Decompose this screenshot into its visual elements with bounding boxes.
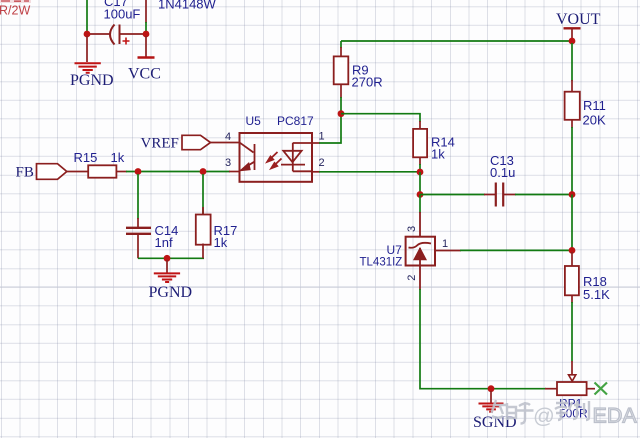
resistor R9 270R (334, 41, 383, 114)
svg-text:1k: 1k (214, 235, 228, 250)
svg-text:100uF: 100uF (104, 7, 141, 22)
svg-text:VOUT: VOUT (556, 11, 601, 28)
ground SGND (473, 391, 517, 431)
svg-text:PGND: PGND (149, 284, 193, 301)
diode label 1N4148W (158, 0, 217, 11)
regulator U7 TL431IZ (360, 195, 462, 291)
resistor R11 20K (565, 43, 606, 195)
ground PGND (top-left) (70, 36, 114, 89)
pin number 2 (319, 157, 325, 169)
capacitor C13 0.1u (420, 153, 572, 207)
junction node FB/R15 (135, 168, 142, 175)
svg-text:PGND: PGND (70, 72, 114, 89)
major grid line (0, 286, 640, 288)
svg-text:3: 3 (406, 226, 418, 232)
pin number 3 (U7) (406, 226, 418, 232)
wire FB to R15 (67, 171, 89, 173)
junction node SGND rail (488, 385, 495, 392)
junction node C17 right (143, 31, 150, 38)
junction node R9 bottom (338, 110, 345, 117)
resistor R14 1k (413, 121, 455, 172)
junction node C13 right (569, 191, 576, 198)
resistor R17 1k (196, 174, 238, 258)
svg-text:1nf: 1nf (155, 235, 173, 250)
svg-text:R15: R15 (74, 150, 98, 165)
svg-text:20K: 20K (583, 113, 606, 128)
resistor R18 5.1K (565, 252, 610, 362)
wire C13 node down to R18 node (571, 195, 573, 251)
svg-text:EDA: EDA (593, 404, 638, 428)
wire VOUT rail (top) (341, 40, 572, 42)
svg-text:U7: U7 (387, 243, 403, 257)
junction node C17 left (84, 31, 91, 38)
pin number 2 (U7) (406, 275, 418, 281)
svg-text:4: 4 (225, 131, 231, 143)
watermark 知乎 @立创EDA (492, 399, 638, 428)
svg-text:2: 2 (406, 275, 418, 281)
value label fragment R/2W (0, 0, 31, 18)
junction node R14 bottom (417, 169, 424, 176)
wire C14 bottom to PGND rail (138, 257, 204, 259)
svg-text:R/2W: R/2W (0, 4, 30, 18)
resistor R15 1k (74, 150, 128, 178)
svg-text:5.1K: 5.1K (583, 287, 610, 302)
potentiometer RP1 500R (545, 361, 595, 421)
ground PGND (bottom) (149, 260, 193, 301)
svg-text:U5: U5 (246, 114, 262, 128)
power flag VCC (128, 36, 161, 83)
junction node R17 top (200, 168, 207, 175)
wire R14 node down to C13 node (419, 172, 421, 195)
svg-text:PC817: PC817 (277, 114, 314, 128)
no-connect flag X (595, 383, 608, 395)
wire U5 pin2 to R14 node (312, 171, 420, 173)
optocoupler U5 PC817 (240, 114, 315, 182)
svg-text:R11: R11 (583, 98, 606, 113)
svg-text:1: 1 (319, 131, 325, 143)
wire U7 pin2 down to SGND rail (420, 289, 546, 389)
svg-text:1: 1 (442, 238, 448, 250)
capacitor C17 (88, 0, 145, 45)
wire top-left vertical into C17 node (86, 0, 88, 32)
junction node R18 top (569, 247, 576, 254)
wire R15 to U5 pin3 (126, 171, 240, 173)
pin number 3 (225, 157, 231, 169)
svg-text:VCC: VCC (128, 66, 161, 83)
port VREF (141, 135, 211, 151)
svg-text:3: 3 (225, 157, 231, 169)
junction node VOUT (569, 38, 576, 45)
power flag VOUT (556, 11, 601, 40)
pin number 1 (U7) (442, 238, 448, 250)
wire U5 pin1 up to R9 node (312, 114, 341, 143)
svg-text:1k: 1k (431, 147, 445, 162)
port FB (16, 164, 67, 181)
svg-text:2: 2 (319, 157, 325, 169)
svg-text:270R: 270R (352, 75, 383, 90)
capacitor C14 1nf (126, 174, 178, 258)
diode D pin (1N4148W) vertical (145, 0, 147, 32)
wire R9 node to R14 top (341, 114, 420, 122)
svg-text:0.1u: 0.1u (490, 165, 515, 180)
junction node PGND rail (164, 255, 171, 262)
svg-text:VREF: VREF (141, 135, 179, 151)
svg-text:1k: 1k (111, 150, 125, 165)
svg-text:@: @ (533, 404, 555, 428)
wire VREF to U5 pin4 (211, 142, 240, 144)
svg-text:TL431IZ: TL431IZ (360, 257, 403, 269)
pin number 4 (225, 131, 231, 143)
pin number 1 (319, 131, 325, 143)
junction node C13 left (417, 191, 424, 198)
svg-text:1N4148W: 1N4148W (158, 0, 217, 11)
svg-text:FB: FB (16, 165, 34, 181)
wire U7 pin1 to R18 node (460, 249, 572, 251)
